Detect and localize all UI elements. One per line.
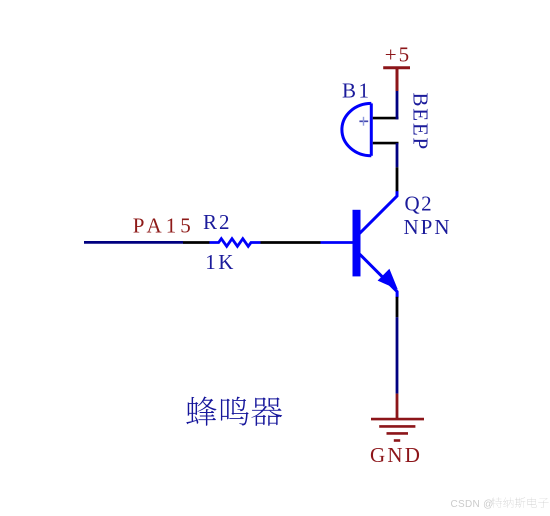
鸣: [221, 397, 249, 426]
buzzer B1 pin 2: [373, 142, 399, 145]
svg-text:BEEP: BEEP: [409, 93, 433, 152]
wire base lead: [321, 241, 353, 244]
器: [251, 397, 282, 426]
wire left horizontal (net PA15): [84, 241, 183, 244]
svg-text:CSDN @: CSDN @: [451, 499, 494, 510]
buzzer B1 pin 1: [373, 117, 399, 120]
buzzer B1 plus polarity mark: [359, 120, 368, 122]
特: [492, 497, 502, 508]
buzzer B1 arc body: [342, 103, 371, 155]
子: [538, 498, 548, 508]
transistor Q2 emitter pin: [396, 297, 399, 318]
transistor Q2 emitter lead: [360, 254, 398, 298]
svg-text:GND: GND: [370, 443, 422, 467]
蜂: [186, 397, 216, 426]
ground bar 3: [387, 432, 409, 435]
transistor Q2 base bar: [353, 210, 361, 277]
power +5 bar: [383, 66, 410, 69]
transistor Q2 collector pin: [396, 167, 399, 191]
resistor R2 body: [210, 239, 261, 247]
svg-text:PA15: PA15: [133, 214, 195, 238]
power +5 stub: [396, 68, 399, 91]
svg-text:1K: 1K: [205, 250, 236, 274]
纳: [503, 497, 513, 507]
resistor R2 right pin: [261, 241, 321, 244]
label 蜂鸣器: [186, 397, 282, 426]
ground stub: [396, 394, 399, 419]
transistor Q2 collector lead: [360, 191, 398, 234]
ground bar 4: [394, 439, 400, 442]
wire +5 to buzzer pin1: [396, 91, 399, 119]
ground bar 2: [379, 425, 415, 428]
wire emitter to ground: [396, 317, 399, 393]
svg-text:NPN: NPN: [404, 215, 452, 239]
斯: [515, 497, 525, 507]
buzzer B1 flat side: [370, 103, 373, 155]
resistor R2 left pin: [183, 241, 210, 244]
ground bar 1: [371, 418, 424, 421]
svg-text:R2: R2: [203, 210, 232, 234]
电: [528, 497, 537, 507]
transistor Q2 emitter arrow: [378, 269, 398, 290]
svg-text:Q2: Q2: [405, 192, 434, 216]
wire buzzer pin2 to collector: [396, 143, 399, 167]
svg-text:B1: B1: [342, 79, 372, 103]
watermark 特纳斯电子: [492, 497, 549, 508]
svg-text:+5: +5: [385, 43, 411, 67]
